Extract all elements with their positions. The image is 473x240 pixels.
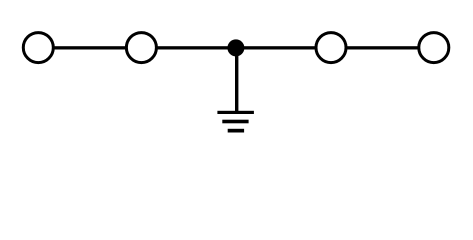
- ground: top bar: [217, 111, 254, 114]
- wire: junction to ground (vertical): [235, 48, 238, 111]
- terminal T3: [316, 33, 346, 63]
- wire: terminal T3 to terminal T4: [344, 46, 422, 49]
- ground: bottom bar: [228, 129, 244, 133]
- terminal T1: [23, 33, 53, 63]
- terminal T2: [126, 33, 156, 63]
- wire: junction to terminal T3: [236, 46, 318, 49]
- junction node: [227, 39, 244, 56]
- wire: terminal T2 to junction: [154, 46, 236, 49]
- ground: middle bar: [222, 120, 248, 124]
- terminal T4: [419, 33, 449, 63]
- wire: terminal T1 to terminal T2: [52, 46, 128, 49]
